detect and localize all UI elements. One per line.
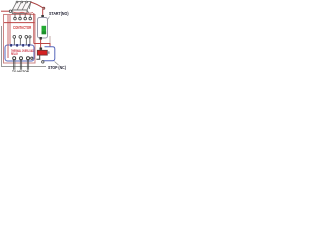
wire from start bottom to control wire: [40, 40, 42, 49]
red jumper arcs under contactor: [13, 12, 33, 13]
label CONTACTOR: [13, 25, 31, 30]
stop button enclosure (blue): [42, 47, 55, 61]
wire down into start button: [42, 9, 44, 16]
start button enclosure: [38, 18, 48, 39]
contactor 3D body: [12, 2, 31, 14]
label TO MOTOR: [12, 70, 29, 74]
red bus line under contactor terminals: [4, 22, 35, 24]
wire to start button (red diagonal): [31, 2, 44, 8]
start button (green): [42, 26, 47, 34]
pointer line to start label: [47, 17, 50, 21]
start button bottom terminal: [40, 37, 42, 40]
pointer line to stop label: [55, 62, 59, 66]
overload output terminals: [13, 57, 33, 60]
node at bend: [43, 7, 45, 9]
stop button plunger: [47, 51, 49, 53]
overload input terminals: [13, 36, 31, 39]
stop button (red): [37, 50, 47, 55]
coil wires (red pair, left): [8, 15, 10, 58]
terminal stems: [15, 14, 30, 17]
stems from overload terminals to box: [14, 38, 30, 45]
contactor front terminals: [14, 17, 32, 20]
label THERMAL OVERLOAD RELAY: [11, 50, 34, 57]
thermal overload relay box (blue): [5, 45, 34, 61]
label START(NO): [49, 11, 69, 16]
outer enclosure box (grey): [2, 26, 47, 67]
contactor enclosure box (pink): [4, 15, 36, 64]
terminal on stop box bottom: [42, 61, 44, 63]
red control wire to stop button: [34, 44, 50, 47]
overload terminal blocks on box edge: [10, 44, 30, 47]
supply terminal: [9, 10, 11, 12]
wires down to motor: [14, 60, 29, 70]
incoming supply wire (red): [1, 10, 10, 12]
contactor top terminals: [16, 1, 27, 3]
start button top terminal: [41, 15, 44, 17]
wire down right side (red): [33, 13, 35, 44]
stop button terminal: [40, 48, 43, 50]
label STOP (NC): [48, 65, 66, 70]
wire below stop button: [36, 56, 40, 60]
faint wire above stop box: [49, 36, 51, 43]
